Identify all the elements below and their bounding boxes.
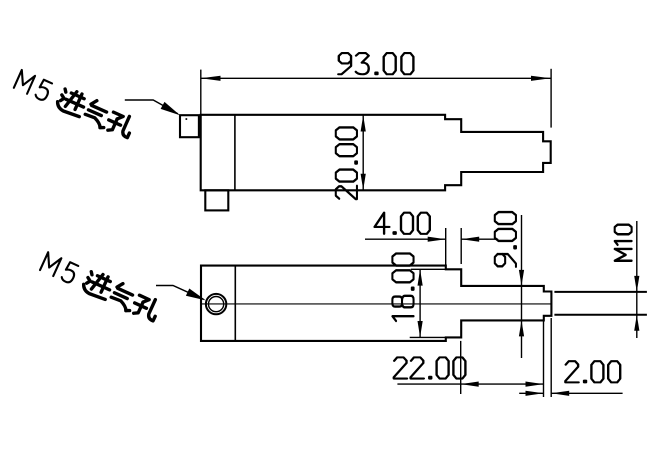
leader arrow bottom M5 [186,289,206,301]
dimension 4.00 line right [461,238,498,240]
dimension M10 line [636,221,638,338]
dimension 22.00 text [394,357,466,378]
top view bottom boss square [205,190,228,210]
dimension 2.00 right arrow [551,391,569,396]
dot in inlet square [186,118,188,120]
extension line at tip step [543,320,545,397]
dimension 93.00 text [338,53,413,74]
dimension M10 bottom arrow [634,315,639,331]
dimension 93.00 left arrow [201,76,221,81]
leader arrow top M5 [161,102,180,115]
dimension 22.00 right arrow [526,382,544,387]
dimension 2.00 line left [519,392,543,394]
dimension 22.00 line [397,383,543,385]
dimension 93.00 extension line right [550,69,552,128]
dimension 20.00 line [362,115,364,190]
dimension 18.00 top arrow [418,269,423,285]
dimension 22.00 left extension [460,341,462,394]
dimension 9.00 top arrow [519,270,524,286]
dimension 18.00 bottom arrow [418,321,423,337]
dimension 20.00 top arrow [361,115,366,131]
dimension 2.00 left arrow [526,391,544,396]
dimension 93.00 right arrow [531,76,551,81]
dimension 4.00 text [375,213,430,234]
threaded rod top line [554,291,647,293]
dimension 4.00 right arrow [461,237,479,242]
dimension 18.00 text [392,254,413,321]
dimension 18.00 top extension [411,268,446,270]
top view body outline [201,115,551,191]
dimension 18.00 line [419,269,421,337]
label M5 air inlet bottom [39,250,161,323]
bottom view cap separation line [234,266,236,341]
extension line at shoulder [550,318,552,397]
bottom view body outline [201,266,551,341]
bottom view center line [201,303,551,305]
dimension 2.00 text [565,361,620,382]
dimension 18.00 bottom extension [410,336,461,338]
dimension 4.00 extension line a [445,228,447,266]
dimension 22.00 left arrow [461,382,479,387]
top view M5 inlet square [180,115,199,137]
top view cap separation line [234,115,236,191]
leader line bottom M5 [156,286,204,300]
leader line top M5 [125,100,178,114]
label M5 air inlet top [13,68,136,140]
dimension 4.00 line left [365,238,446,240]
M5 hole inner circle [209,297,224,312]
dimension 93.00 line [201,77,551,79]
dimension 9.00 line [521,215,523,358]
M5 hole outer circle [206,294,226,314]
dimension 93.00 extension line left [200,70,202,115]
dimension 4.00 extension line b [460,228,462,264]
dimension 4.00 left arrow [428,237,446,242]
dimension 2.00 line right [551,392,622,394]
dimension 20.00 bottom arrow [361,174,366,190]
dimension 20.00 text [336,127,357,199]
dimension M10 top arrow [634,276,639,292]
dimension 9.00 bottom arrow [519,320,524,336]
dimension M10 text [615,225,632,261]
dimension 9.00 text [495,212,516,267]
threaded rod bottom line [554,314,647,316]
